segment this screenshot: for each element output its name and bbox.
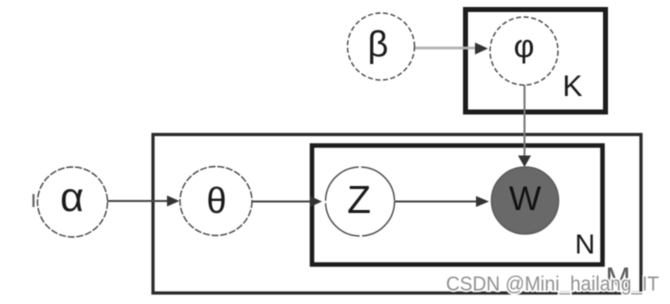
svg-text:CSDN @Mini_hailang_IT: CSDN @Mini_hailang_IT: [446, 274, 659, 296]
svg-text:Z: Z: [347, 179, 371, 222]
svg-text:θ: θ: [206, 180, 226, 221]
svg-text:φ: φ: [514, 28, 535, 64]
svg-text:N: N: [575, 229, 595, 260]
svg-text:α: α: [60, 174, 84, 220]
svg-text:W: W: [509, 180, 541, 218]
svg-text:K: K: [562, 70, 582, 103]
svg-text:β: β: [368, 24, 389, 65]
